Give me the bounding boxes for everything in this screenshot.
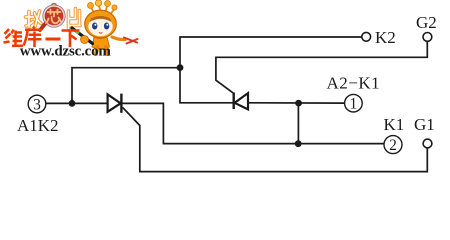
logo red text wei [4, 29, 24, 47]
mascot legs [96, 47, 108, 54]
wire from terminal 3 to thyristor V1 anode [46, 102, 108, 104]
svg-text:1: 1 [350, 96, 358, 113]
wire up and right to K2 terminal [180, 37, 362, 68]
mascot body [92, 37, 110, 49]
mascot arm right with red wand [112, 37, 125, 40]
wire down and right to thyristor V2 cathode [180, 68, 233, 103]
wire junction up and right to K2 branch node [72, 68, 180, 104]
mascot crown balls [88, 0, 118, 15]
logo red text ku [24, 27, 43, 48]
wire V2 anode to terminal 1 [248, 102, 345, 104]
junction dot at A1K2 node [69, 100, 76, 107]
junction dot on A2-K1 wire [295, 100, 302, 107]
svg-text:www.dzsc.com: www.dzsc.com [20, 44, 112, 60]
svg-text:G2: G2 [416, 13, 437, 32]
junction dot at K2 branch node [177, 64, 184, 71]
junction dot on K1 wire [295, 140, 302, 147]
svg-text:A2−K1: A2−K1 [327, 74, 381, 93]
gate wire of V2 to G2 [216, 41, 427, 93]
gate wire of V1 to G1 [123, 107, 428, 171]
mascot face [88, 17, 112, 37]
wire V1 cathode right, down, right to terminal 2 [122, 103, 384, 143]
thyristor V1 [108, 94, 122, 113]
terminal 3 circle [28, 95, 46, 113]
magnifier circle of logo [40, 3, 65, 30]
terminal 1 circle [345, 94, 363, 112]
logo char pian [69, 9, 81, 31]
svg-text:2: 2 [389, 137, 397, 154]
svg-text:3: 3 [33, 96, 41, 113]
logo red text yi [46, 38, 61, 41]
terminal 2 circle [384, 136, 402, 154]
svg-text:K2: K2 [375, 28, 396, 47]
svg-text:A1K2: A1K2 [17, 116, 59, 135]
terminal K2 circle [362, 32, 371, 41]
terminal G2 circle [423, 33, 432, 42]
wire down from A2-K1 node to K1 wire [297, 103, 299, 144]
logo red text xia [62, 31, 80, 48]
mascot head [85, 10, 117, 38]
logo char zhao [26, 11, 42, 27]
mascot eyes [92, 23, 97, 30]
watermark logo dzsc.com [4, 0, 138, 60]
terminal G1 circle [423, 139, 432, 148]
svg-text:G1: G1 [414, 115, 435, 134]
svg-text:K1: K1 [384, 115, 405, 134]
thyristor V2 [234, 93, 248, 110]
mascot pen [72, 28, 93, 44]
